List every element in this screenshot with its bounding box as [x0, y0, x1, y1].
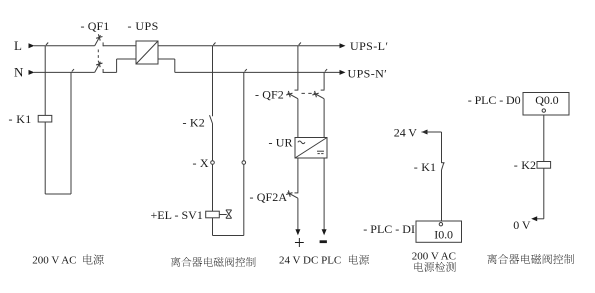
svg-text:- PLC - DI: - PLC - DI: [363, 222, 415, 236]
svg-text:- QF2: - QF2: [255, 87, 284, 101]
svg-text:- X: - X: [193, 156, 209, 170]
svg-text:- K2: - K2: [183, 116, 205, 130]
svg-text:- QF1: - QF1: [81, 19, 110, 33]
svg-text:UPS-N′: UPS-N′: [348, 66, 388, 80]
svg-text:+EL - SV1: +EL - SV1: [151, 208, 203, 222]
svg-text:24 V: 24 V: [394, 125, 417, 139]
svg-text:0 V: 0 V: [513, 218, 531, 232]
svg-text:200 V AC: 200 V AC: [412, 250, 456, 262]
svg-text:- K2: - K2: [514, 158, 536, 172]
svg-text:- K1: - K1: [414, 160, 436, 174]
svg-text:- QF2A: - QF2A: [250, 190, 288, 204]
svg-text:UPS-L′: UPS-L′: [350, 39, 388, 53]
svg-text:+: +: [294, 233, 305, 254]
svg-text:Q0.0: Q0.0: [535, 93, 558, 107]
svg-text:- UPS: - UPS: [128, 19, 159, 33]
svg-text:- K1: - K1: [9, 112, 32, 126]
svg-text:- PLC - D0: - PLC - D0: [468, 93, 521, 107]
svg-text:N: N: [14, 65, 24, 80]
svg-text:200 V AC: 200 V AC: [32, 255, 76, 267]
svg-text:24 V DC PLC: 24 V DC PLC: [279, 255, 341, 267]
svg-text:I0.0: I0.0: [434, 228, 453, 242]
svg-text:- UR: - UR: [269, 136, 293, 150]
svg-text:L: L: [14, 38, 22, 53]
